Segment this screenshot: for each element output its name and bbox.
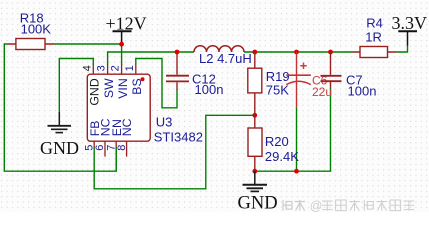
wire: EN net from R18 left down and to pin 7 xyxy=(4,44,116,171)
BS pin red dot xyxy=(141,77,145,81)
pin 6 stub xyxy=(104,141,106,156)
junction dot R20/ground xyxy=(252,169,257,174)
svg-text:SW: SW xyxy=(102,78,116,98)
pin 3 stub xyxy=(107,65,109,75)
wire: BS bootstrap net xyxy=(136,59,177,108)
junction dot C7 top xyxy=(328,50,333,55)
junction dot C6 top xyxy=(294,50,299,55)
svg-text:100n: 100n xyxy=(348,84,377,99)
svg-text:L2 4.7uH: L2 4.7uH xyxy=(199,51,252,66)
svg-text:GND: GND xyxy=(238,194,278,214)
wire: +12V rail from R18 right to VIN junction xyxy=(55,43,122,45)
svg-text:+12V: +12V xyxy=(106,14,147,34)
inductor L2 xyxy=(194,46,252,66)
svg-text:100K: 100K xyxy=(21,22,52,37)
wire: ground rail under R20/C6/C7 xyxy=(255,87,331,171)
watermark xyxy=(283,199,414,213)
svg-text:22u: 22u xyxy=(312,85,332,99)
ground symbol right xyxy=(238,171,278,213)
svg-text:100n: 100n xyxy=(195,82,224,97)
pin 2 stub xyxy=(121,65,123,75)
wire: GND net pin4 to left ground xyxy=(59,59,93,113)
wire: pin7 EN riser xyxy=(115,147,117,171)
svg-text:8: 8 xyxy=(116,145,128,151)
junction dot VIN/+12V xyxy=(119,42,124,47)
resistor R19 xyxy=(248,52,290,115)
junction dot L2/R19 xyxy=(252,50,257,55)
svg-text:6: 6 xyxy=(94,145,106,151)
svg-text:GND: GND xyxy=(88,78,102,105)
capacitor C12 xyxy=(166,52,223,97)
svg-text:R4: R4 xyxy=(366,16,383,31)
resistor R4 xyxy=(353,16,397,58)
resistor R20 xyxy=(248,115,299,171)
svg-text:29.4K: 29.4K xyxy=(265,149,299,164)
svg-text:@: @ xyxy=(310,199,323,213)
pin 1 stub xyxy=(135,65,137,75)
pin 7 stub xyxy=(115,141,117,148)
IC U3 STI3482 xyxy=(87,74,203,144)
wire: FB net from divider junction to pin 5 xyxy=(94,115,255,189)
pin 4 stub xyxy=(92,65,94,75)
junction dot R19/R20/FB xyxy=(252,113,257,118)
ground symbol left xyxy=(40,112,79,158)
power port +12V xyxy=(106,14,147,44)
svg-text:1R: 1R xyxy=(365,29,382,44)
svg-text:R20: R20 xyxy=(265,134,289,149)
svg-text:75K: 75K xyxy=(266,82,289,97)
resistor R18 xyxy=(8,10,55,49)
svg-text:GND: GND xyxy=(40,138,79,158)
svg-text:4: 4 xyxy=(81,65,93,71)
wire: SW net up and right to C12/L2 junction xyxy=(108,52,194,65)
pin 5 stub xyxy=(93,141,95,148)
junction dot C6 bottom xyxy=(294,169,299,174)
wire: output rail L2 to R4 xyxy=(244,51,353,53)
pin 8 stub xyxy=(126,141,128,156)
svg-text:2: 2 xyxy=(110,65,122,71)
capacitor C6 (polarized) xyxy=(286,52,332,108)
svg-text:VIN: VIN xyxy=(116,78,130,99)
svg-text:STI3482: STI3482 xyxy=(154,130,203,145)
svg-text:1: 1 xyxy=(124,65,136,71)
wire: C6 bottom xyxy=(296,108,298,171)
svg-text:U3: U3 xyxy=(156,115,173,130)
svg-text:3: 3 xyxy=(96,65,108,71)
wire: VIN drop xyxy=(121,44,123,65)
svg-text:3.3V: 3.3V xyxy=(392,13,428,33)
power port 3.3V xyxy=(392,13,428,46)
junction dot SW/C12/L2 xyxy=(175,50,180,55)
svg-text:NC: NC xyxy=(120,118,134,136)
capacitor C7 xyxy=(321,52,377,99)
wire: R4 right to 3.3V xyxy=(397,45,408,52)
